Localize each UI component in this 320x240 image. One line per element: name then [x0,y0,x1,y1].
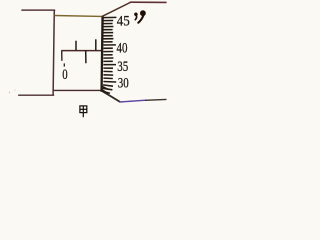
thimble tick 45 long [103,16,116,18]
thimble minor tick [103,38,113,40]
thimble scale ticks [102,17,116,93]
thimble bottom bevel diagonal [102,91,120,102]
frame bottom edge [19,94,54,96]
thimble minor tick [103,23,112,25]
thimble minor tick slanted [103,85,113,86]
svg-text:40: 40 [117,40,128,56]
main scale datum line [61,50,101,52]
thimble minor tick [103,57,113,59]
thimble minor tick [103,20,113,22]
thimble minor tick [103,60,112,62]
main scale upper tick 2 [95,39,97,50]
thimble minor tick [103,26,113,28]
thimble minor tick [103,74,113,76]
thimble minor tick [103,67,113,69]
thimble minor tick [103,35,112,37]
svg-text:0: 0 [62,67,67,83]
thimble minor tick [103,54,112,56]
thimble minor tick [103,32,113,34]
main scale short tick above zero label [63,63,65,66]
thimble bottom corner hatch [102,86,109,93]
svg-text:30: 30 [118,75,129,91]
thimble left edge [100,16,103,92]
thimble minor tick slanted [102,91,110,93]
svg-text:35: 35 [117,59,128,75]
thimble minor tick [103,70,112,72]
thimble minor tick slanted [103,88,113,90]
thimble bottom edge line purple part [120,100,147,102]
sleeve bottom edge [53,89,101,91]
thimble minor tick [103,41,112,43]
thimble tick 30 long [103,81,116,84]
thimble tick 40 long [103,44,116,46]
sleeve top edge [54,15,101,18]
thimble tick 35 long [103,64,116,66]
dust speck [9,92,10,93]
main scale lower half tick [85,51,87,64]
ink blot squiggle mark right curl [140,10,146,16]
thimble top edge line [131,1,167,3]
ink blot squiggle mark left hook [134,13,138,16]
svg-text:45: 45 [117,13,130,29]
thimble top bevel diagonal [102,2,131,16]
thimble minor tick [103,29,112,31]
caption jia character [80,106,87,117]
thimble minor tick [103,47,112,49]
frame left vertical edge [53,10,54,96]
dust speck [14,89,15,90]
thimble minor tick [103,51,113,53]
thimble bottom edge line dark part [145,98,167,101]
frame top edge [22,9,55,11]
main scale zero end tick [61,51,63,61]
thimble minor tick [103,77,112,79]
main scale upper tick 1 [75,41,77,51]
